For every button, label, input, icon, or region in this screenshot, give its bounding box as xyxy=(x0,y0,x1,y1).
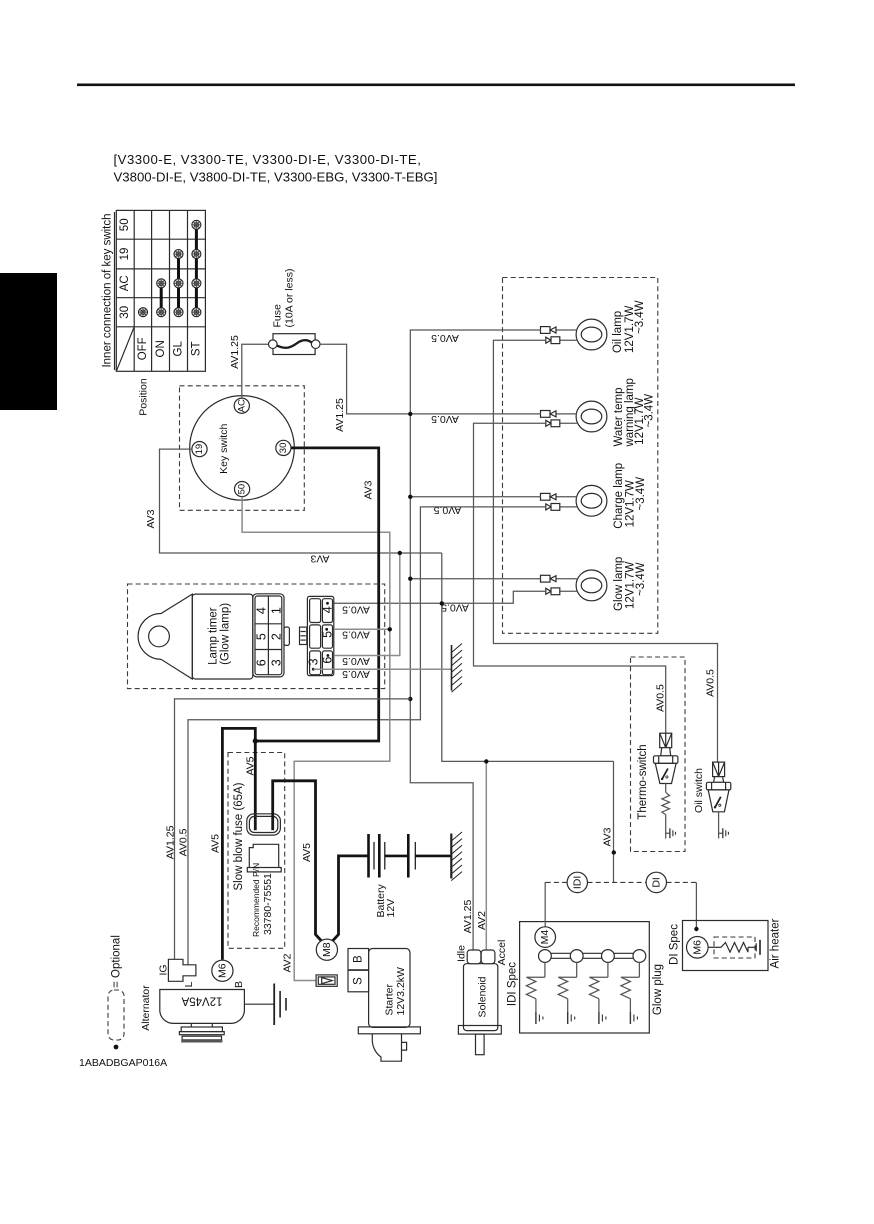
wire AC to fuse xyxy=(242,344,269,398)
svg-text:AV0.5: AV0.5 xyxy=(342,604,370,616)
svg-text:AV5: AV5 xyxy=(245,756,257,775)
thermo-switch dashed box xyxy=(631,657,686,852)
oil lamp xyxy=(576,300,646,353)
svg-text:AV0.5: AV0.5 xyxy=(433,504,461,516)
accel branch to solenoid xyxy=(484,759,488,950)
svg-text:19: 19 xyxy=(194,444,205,455)
svg-text:L: L xyxy=(183,981,195,987)
wire fuse to lamp bus xyxy=(320,344,410,414)
svg-text:B: B xyxy=(233,981,245,988)
glow plug IDI box xyxy=(520,922,650,1033)
key switch terminal AC xyxy=(234,398,249,413)
svg-text:~3.4W: ~3.4W xyxy=(635,477,647,511)
glow lamp lower wire to timer pin4 xyxy=(334,591,546,603)
svg-text:Starter: Starter xyxy=(384,983,396,1015)
timer pin5 wire to key50 xyxy=(334,627,392,631)
svg-text:AV0.5: AV0.5 xyxy=(342,629,370,641)
svg-text:M4: M4 xyxy=(539,930,551,945)
alternator IG terminal connector xyxy=(168,959,196,981)
svg-text:Lamp timer: Lamp timer xyxy=(208,607,220,665)
alternator pulley xyxy=(179,1023,224,1042)
key switch dashed box xyxy=(180,386,305,511)
svg-text:IDI: IDI xyxy=(571,876,583,889)
key switch body xyxy=(190,396,295,501)
key switch terminal 50 xyxy=(235,482,250,497)
water temp lamp xyxy=(576,378,656,447)
svg-text:Slow blow fuse (65A): Slow blow fuse (65A) xyxy=(233,782,245,890)
svg-text:AV0.5: AV0.5 xyxy=(178,828,190,856)
starter terminal S xyxy=(348,970,369,992)
svg-text:AV0.5: AV0.5 xyxy=(431,332,459,344)
fuse (10A or less) xyxy=(269,334,321,355)
svg-text:Inner connection of key switch: Inner connection of key switch xyxy=(102,213,114,367)
svg-text:19: 19 xyxy=(119,248,131,261)
svg-text:6: 6 xyxy=(255,659,269,666)
battery xyxy=(369,834,451,878)
svg-text:5: 5 xyxy=(255,633,269,640)
svg-text:M6: M6 xyxy=(216,963,228,978)
chassis ground hatch (battery) xyxy=(451,832,462,881)
svg-text:Glow lamp: Glow lamp xyxy=(613,557,625,611)
chassis ground hatch (timer) xyxy=(452,644,463,693)
svg-text:AV3: AV3 xyxy=(145,509,157,528)
thermo-switch xyxy=(654,733,678,838)
svg-text:AV3: AV3 xyxy=(363,480,375,499)
slow blow fuse dashed box xyxy=(228,753,285,949)
table contact circles and bars xyxy=(139,220,201,316)
key switch terminal 30 xyxy=(276,440,291,455)
AV3 wire to glow plug bus xyxy=(612,761,616,882)
svg-text:50: 50 xyxy=(237,484,248,495)
alternator body xyxy=(160,990,245,1024)
wire key 50 (AV2) to starter S xyxy=(242,497,390,981)
svg-text:S: S xyxy=(352,977,364,985)
oil lamp lower wire to oil switch xyxy=(493,340,717,762)
svg-text:Charge lamp: Charge lamp xyxy=(613,463,625,529)
svg-text:IG: IG xyxy=(158,964,170,975)
water temp lamp upper lead connector xyxy=(541,411,577,418)
charge lamp upper lead connector xyxy=(541,493,577,500)
starter flange xyxy=(358,1027,420,1034)
svg-text:1ABADBGAP016A: 1ABADBGAP016A xyxy=(79,1057,167,1069)
lamp supply bus (AV1.25/AV0.5 vertical) xyxy=(410,330,541,950)
slow blow fuse holder xyxy=(247,844,281,872)
svg-text:2: 2 xyxy=(269,633,283,640)
glow plug 4 xyxy=(621,950,646,1024)
svg-text:50: 50 xyxy=(119,218,131,231)
thick wire slow fuse to battery M8 xyxy=(273,781,322,942)
glow lamp xyxy=(576,557,647,611)
svg-text:AC: AC xyxy=(236,399,247,412)
label Battery 12V xyxy=(375,883,397,917)
svg-text:6: 6 xyxy=(321,657,335,664)
svg-text:4: 4 xyxy=(255,607,269,614)
svg-text:Solenoid: Solenoid xyxy=(477,976,489,1017)
svg-text:Oil lamp: Oil lamp xyxy=(612,311,624,353)
label Fuse (10A or less) xyxy=(272,269,296,328)
svg-text:AV2: AV2 xyxy=(476,911,488,930)
wire key 30 thick (AV3) xyxy=(255,448,378,741)
warning lamps dashed box xyxy=(503,278,658,634)
starter motor housing xyxy=(372,1034,406,1061)
svg-text:12V: 12V xyxy=(385,899,397,918)
svg-text:B: B xyxy=(352,955,364,963)
page top rule xyxy=(77,84,795,87)
timer pin6 wire to 19 wire xyxy=(334,551,402,656)
svg-text:AC: AC xyxy=(119,275,131,291)
alternator B bolt M6 xyxy=(212,960,233,981)
air heater bolt M6 xyxy=(687,937,709,959)
svg-text:Oil switch: Oil switch xyxy=(693,768,705,813)
svg-text:30: 30 xyxy=(119,306,131,319)
svg-text:3: 3 xyxy=(306,658,320,665)
lamp timer connector (body side) xyxy=(253,594,290,677)
glow lamp upper lead connector xyxy=(541,575,577,582)
svg-text:Accel: Accel xyxy=(496,940,508,966)
svg-text:ON: ON xyxy=(155,340,167,357)
svg-text:AV1.25: AV1.25 xyxy=(462,900,474,934)
svg-text:AV3: AV3 xyxy=(602,827,614,846)
lamp timer harness latch xyxy=(300,627,307,644)
wire bus to alternator IG xyxy=(175,699,411,959)
svg-text:33780-75551: 33780-75551 xyxy=(262,873,274,935)
svg-text:~3.4W: ~3.4W xyxy=(635,562,647,596)
svg-text:Recommended P/N: Recommended P/N xyxy=(251,863,261,937)
svg-text:AV2: AV2 xyxy=(282,953,294,972)
glow plug 2 xyxy=(558,950,583,1024)
oil switch xyxy=(706,762,730,838)
svg-text:Alternator: Alternator xyxy=(140,985,152,1031)
starter body xyxy=(369,949,410,1028)
lamp timer dashed box xyxy=(128,584,385,689)
svg-text:Position: Position xyxy=(138,378,150,416)
junction dots on bus xyxy=(408,412,412,701)
svg-text:AV0.5: AV0.5 xyxy=(342,655,370,667)
svg-text:IDI Spec: IDI Spec xyxy=(507,962,519,1006)
label Recommended P/N 33780-75551 xyxy=(251,863,274,937)
glow plug 1 xyxy=(526,950,551,1024)
battery bolt M8 xyxy=(316,939,337,960)
svg-text:DI Spec: DI Spec xyxy=(669,924,681,965)
svg-text:~3.4W: ~3.4W xyxy=(644,394,656,428)
wire 19 branch down to accel / glow plugs xyxy=(442,553,614,761)
glow plug bus bars xyxy=(545,953,640,958)
oil lamp lower lead connector xyxy=(546,337,577,344)
svg-text:AV0.5: AV0.5 xyxy=(704,669,716,697)
alternator ground xyxy=(244,984,286,1026)
glow lamp lower lead connector xyxy=(546,588,577,595)
svg-text:(10A or less): (10A or less) xyxy=(283,269,295,328)
title text xyxy=(114,152,438,185)
svg-text:12V45A: 12V45A xyxy=(181,995,222,1007)
svg-text:5: 5 xyxy=(321,631,335,638)
charge lamp lower lead connector xyxy=(546,504,577,511)
svg-text:[V3300-E, V3300-TE, V3300-DI-E: [V3300-E, V3300-TE, V3300-DI-E, V3300-DI… xyxy=(114,152,422,167)
svg-text:ST: ST xyxy=(190,341,202,356)
charge lamp lower wire to alternator L xyxy=(188,507,546,965)
svg-text:AV3: AV3 xyxy=(310,553,329,565)
lamp timer body xyxy=(138,594,253,679)
svg-text:AV0.5: AV0.5 xyxy=(342,668,370,680)
svg-text:Thermo-switch: Thermo-switch xyxy=(637,744,649,819)
svg-text:(Glow lamp): (Glow lamp) xyxy=(219,603,231,665)
svg-text:Glow plug: Glow plug xyxy=(652,964,664,1015)
optional legend xyxy=(108,935,124,1049)
wire DI to M6 xyxy=(694,882,698,931)
svg-text:M6: M6 xyxy=(691,940,703,955)
dashed wire to M4 xyxy=(545,881,696,883)
svg-text:= Optional: = Optional xyxy=(111,935,123,988)
svg-text:V3800-DI-E, V3800-DI-TE, V3300: V3800-DI-E, V3800-DI-TE, V3300-EBG, V330… xyxy=(114,170,438,185)
oil lamp upper lead connector xyxy=(541,327,577,334)
svg-text:Idle: Idle xyxy=(456,945,468,962)
svg-text:DI: DI xyxy=(650,877,662,888)
svg-text:AV1.25: AV1.25 xyxy=(164,825,176,859)
svg-text:Air heater: Air heater xyxy=(770,918,782,968)
DI spec box xyxy=(683,921,769,971)
wire bus to water temp lamp xyxy=(410,413,541,415)
IDI circle xyxy=(567,872,587,892)
wire bus to glow lamp xyxy=(410,578,541,580)
thick wire alternator B to slow blow fuse xyxy=(222,728,255,959)
solenoid xyxy=(458,950,501,1055)
svg-text:~3.4W: ~3.4W xyxy=(634,300,646,334)
starter S feed connector xyxy=(316,975,337,986)
lamp timer harness connector xyxy=(306,596,334,675)
svg-text:AV5: AV5 xyxy=(301,843,313,862)
starter terminal B xyxy=(348,949,369,970)
glow plug 3 xyxy=(589,950,614,1024)
key switch connection table xyxy=(116,210,205,371)
svg-text:AV0.5: AV0.5 xyxy=(431,413,459,425)
svg-text:AV5: AV5 xyxy=(210,834,222,853)
wire bus to charge lamp xyxy=(410,496,541,498)
svg-text:OFF: OFF xyxy=(137,337,149,360)
svg-text:4: 4 xyxy=(321,606,335,613)
air heater element xyxy=(708,937,760,958)
svg-text:AV0.5: AV0.5 xyxy=(654,684,666,712)
charge lamp xyxy=(576,463,647,529)
slow blow fuse element xyxy=(247,814,281,835)
wire key 19 (AV3) xyxy=(160,449,442,553)
svg-text:Key switch: Key switch xyxy=(218,424,230,474)
water temp lower wire to thermo-switch xyxy=(474,423,666,733)
DI circle xyxy=(646,872,666,892)
svg-text:3: 3 xyxy=(269,659,283,666)
black chapter tab xyxy=(0,273,57,410)
water temp lamp lower lead connector xyxy=(546,420,577,427)
svg-text:30: 30 xyxy=(278,443,289,454)
key switch terminal 19 xyxy=(192,442,207,457)
svg-text:AV1.25: AV1.25 xyxy=(229,335,241,369)
svg-text:Fuse: Fuse xyxy=(272,304,284,328)
timer pin3 wire to chassis ground xyxy=(313,668,451,670)
svg-text:12V3.2kW: 12V3.2kW xyxy=(395,967,407,1016)
glow plug bolt M4 xyxy=(535,882,556,947)
svg-text:GL: GL xyxy=(173,341,185,357)
svg-text:AV1.25: AV1.25 xyxy=(334,398,346,432)
svg-text:M8: M8 xyxy=(321,942,333,957)
svg-text:1: 1 xyxy=(269,607,283,614)
